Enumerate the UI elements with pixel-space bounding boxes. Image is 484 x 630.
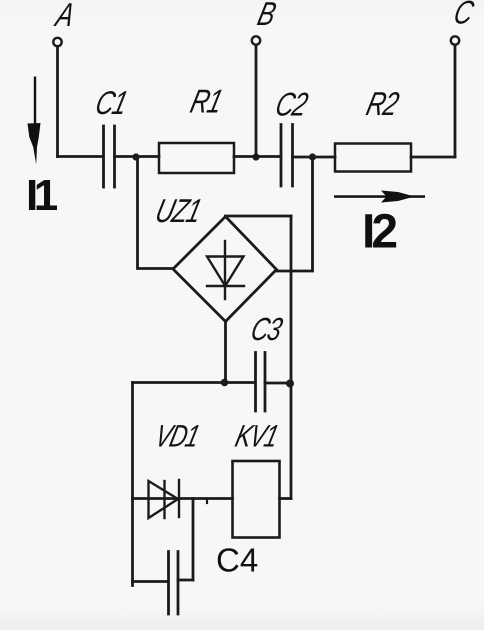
- wire VD1 row: [133, 497, 233, 500]
- wire node-R2 down to bridge right corner: [277, 157, 313, 271]
- bridge inner diode: [207, 241, 244, 299]
- svg-text:C2: C2: [272, 87, 312, 124]
- wire R2 to C: [411, 156, 455, 159]
- wire bridge bottom corner down: [224, 322, 227, 383]
- svg-text:R2: R2: [363, 86, 403, 123]
- resistor R2: [335, 144, 411, 172]
- capacitor C1: [102, 126, 105, 187]
- capacitor C2: [280, 125, 283, 187]
- wire C3 to right vertical: [265, 382, 291, 385]
- wire left loop vertical: [131, 383, 134, 586]
- node C3 right: [286, 380, 294, 388]
- svg-text:I2: I2: [362, 206, 396, 259]
- svg-text:KV1: KV1: [232, 419, 281, 453]
- svg-text:C3: C3: [247, 312, 285, 348]
- node after C1: [132, 153, 139, 160]
- wire stub below VD1 wire: [206, 499, 208, 504]
- wire A lead: [56, 47, 59, 157]
- terminal B: [252, 36, 260, 44]
- wire bridge top corner to right vertical: [226, 215, 292, 218]
- node before R2: [309, 153, 316, 160]
- bridge rectifier UZ1 diamond: [173, 217, 277, 322]
- svg-text:R1: R1: [187, 84, 226, 121]
- svg-text:C4: C4: [216, 542, 258, 579]
- wire top: A to C1: [58, 155, 104, 158]
- I2 current arrow: [334, 191, 425, 203]
- wire C4 row right: [178, 579, 193, 582]
- svg-text:B: B: [254, 0, 279, 33]
- wire KV1 right jog: [280, 497, 292, 500]
- svg-text:VD1: VD1: [152, 419, 202, 453]
- node bridge bottom: [221, 379, 229, 387]
- wire right vertical (top to KV1): [290, 216, 293, 499]
- svg-text:C1: C1: [92, 85, 131, 122]
- wire R1 to C2: [234, 155, 281, 158]
- wire C4 branch vertical: [192, 499, 195, 581]
- svg-text:A: A: [51, 0, 78, 34]
- diode VD1: [149, 480, 180, 518]
- svg-text:I1: I1: [26, 171, 58, 220]
- relay coil KV1: [233, 461, 280, 538]
- capacitor C4: [167, 552, 170, 615]
- I1 current arrow: [28, 77, 41, 165]
- wire C3 row left: [133, 381, 256, 384]
- node B junction: [252, 153, 259, 160]
- wire B lead: [255, 45, 258, 157]
- resistor R1: [159, 143, 234, 173]
- svg-text:C: C: [450, 0, 477, 31]
- terminal C: [451, 36, 459, 44]
- wire C4 row left: [133, 580, 169, 583]
- wire C2 to R2: [293, 156, 336, 159]
- wire C lead: [454, 45, 457, 157]
- svg-text:UZ1: UZ1: [152, 193, 205, 230]
- wire node-C1 down to bridge: [138, 157, 174, 269]
- capacitor C3: [254, 353, 257, 412]
- wire C1 to R1: [115, 155, 160, 158]
- terminal A: [53, 38, 61, 46]
